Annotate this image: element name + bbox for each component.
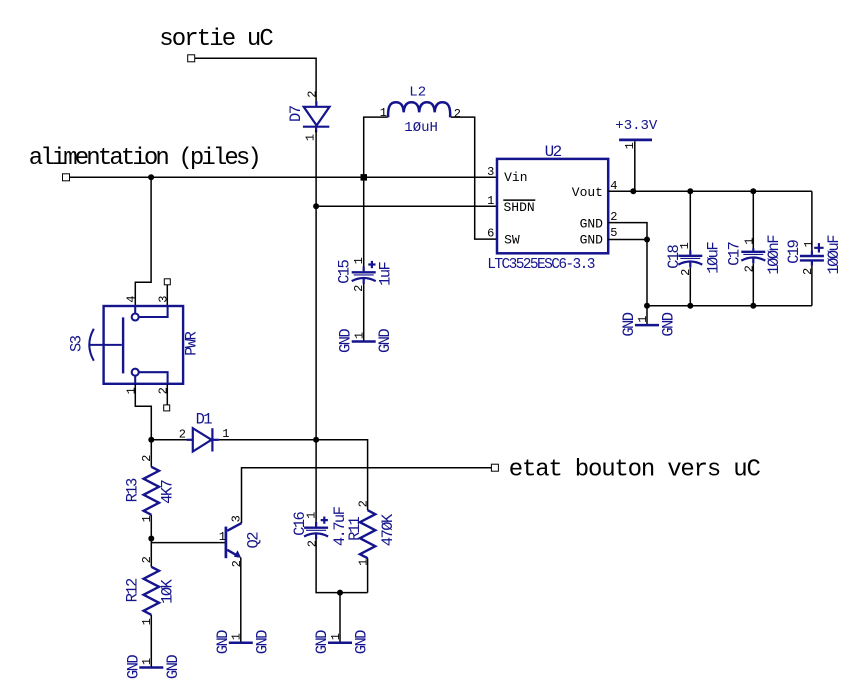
ground symbol under Q2 [214,630,271,654]
svg-text:Q2: Q2 [244,532,262,549]
svg-text:Vin: Vin [504,170,527,185]
svg-text:SHDN: SHDN [504,200,535,215]
svg-text:S3: S3 [67,335,85,352]
svg-text:1: 1 [380,106,387,120]
svg-text:1: 1 [802,240,816,247]
svg-text:C15: C15 [335,259,353,283]
resistor R12 [123,556,176,667]
svg-text:4K7: 4K7 [158,479,176,503]
junction bottom rail left [644,303,650,309]
svg-text:1: 1 [352,257,366,264]
wire D7 cathode down through SHDN node to C16 [315,130,317,522]
svg-text:3: 3 [157,295,171,302]
node sortie uC [159,26,273,62]
svg-text:6: 6 [487,226,494,240]
wire D1 row to R11 top [316,440,368,510]
svg-text:PWR: PWR [182,331,200,355]
capacitor C18 [665,188,723,308]
wire Q2 collector to etat node [242,468,492,523]
svg-text:R11: R11 [346,516,364,540]
wire switch pin1 down to D1 node [135,384,151,440]
inductor L2 [380,84,461,136]
svg-text:U2: U2 [545,143,562,161]
node alimentation (piles) [29,145,259,181]
wire SHDN [316,205,497,207]
svg-text:2: 2 [306,540,320,547]
svg-text:GND: GND [253,630,271,654]
wire L2 left branch [364,117,388,177]
wire Q2 emitter to ground [240,558,242,643]
svg-text:47ØK: 47ØK [379,513,397,546]
junction R13/R12/base node [148,536,154,542]
svg-text:C19: C19 [785,239,803,263]
wire to ground symbol [646,306,648,325]
pushbutton S3 [67,295,200,394]
capacitor C19 [785,191,843,305]
svg-text:2: 2 [454,107,461,121]
node etat bouton vers uC [491,456,760,483]
svg-text:1ØuF: 1ØuF [705,242,723,274]
svg-text:2: 2 [356,500,370,507]
capacitor C16 [291,506,349,547]
diode D7 [287,90,330,141]
wire U2 GND pin5 [608,239,647,241]
svg-text:2: 2 [306,90,320,97]
svg-text:1uF: 1uF [376,261,394,285]
node switch pin 2 stub [166,384,168,405]
svg-text:GND: GND [164,655,182,679]
svg-text:5: 5 [610,226,617,240]
svg-text:GND: GND [376,329,394,353]
svg-text:1: 1 [329,633,343,640]
svg-text:2: 2 [743,265,757,272]
ground symbol under U2 [620,312,678,336]
svg-text:R12: R12 [123,578,141,602]
resistor R13 [123,440,176,567]
svg-text:1: 1 [222,427,229,441]
svg-text:1: 1 [636,315,650,322]
wire sortie uC to D7 [195,58,316,103]
svg-text:1ØK: 1ØK [158,578,176,603]
svg-text:2: 2 [801,268,815,275]
svg-text:GND: GND [353,630,371,654]
svg-text:SW: SW [504,232,520,247]
wire C15 branch top [363,177,365,266]
wire base node to Q2 [151,542,224,544]
svg-text:1: 1 [230,633,244,640]
svg-text:1: 1 [352,332,366,339]
svg-text:2: 2 [179,428,186,442]
svg-text:1ØØnF: 1ØØnF [765,235,783,275]
svg-text:Vout: Vout [572,185,603,200]
svg-text:GND: GND [660,312,678,336]
node switch pin 3 stub [164,279,170,285]
svg-text:1: 1 [487,194,494,208]
svg-text:3: 3 [487,165,494,179]
diode D1 [179,410,230,451]
op IC U2 LTC3525 [487,143,617,273]
ground symbol under C15 [337,329,395,353]
svg-text:sortie uC: sortie uC [159,26,273,53]
ground symbol under R12 [124,655,182,679]
svg-text:L2: L2 [409,84,426,100]
svg-text:D1: D1 [196,410,213,428]
svg-text:2: 2 [157,387,171,394]
svg-text:1: 1 [743,237,757,244]
svg-text:1: 1 [140,515,154,522]
svg-text:R13: R13 [123,478,141,502]
junction at SHDN vertical / D1 row [313,437,319,443]
svg-text:2: 2 [679,269,693,276]
resistor R11 [346,500,397,592]
wire from alimentation junction to switch pin 4 [135,177,151,306]
svg-text:1: 1 [125,387,139,394]
svg-text:1: 1 [305,512,319,519]
svg-text:D7: D7 [287,105,305,122]
svg-text:2: 2 [610,210,617,224]
ground symbol under C16/R11 [313,630,371,654]
svg-text:C17: C17 [726,241,744,265]
wire L2 right to SW pin [451,117,497,239]
transistor Q2 [219,515,262,567]
wire U2 GND pin2 [608,223,647,306]
wire bottom rail [647,305,812,307]
svg-text:4: 4 [125,295,139,302]
svg-text:1: 1 [219,530,226,544]
svg-text:2: 2 [140,455,154,462]
junction C16/R11 ground tap [337,590,343,596]
wire Vout rail [608,190,812,192]
svg-text:etat bouton vers uC: etat bouton vers uC [509,456,761,483]
wire D1 cathode to SHDN vertical [219,439,316,441]
svg-text:1: 1 [356,559,370,566]
wire alimentation to Vin [70,176,498,178]
svg-text:1: 1 [678,242,692,249]
junction GND pins [644,237,650,243]
junction square at L2/C15 tap [361,174,368,181]
power symbol +3.3V [615,118,658,150]
svg-text:alimentation (piles): alimentation (piles) [29,145,259,172]
svg-text:GND: GND [580,216,604,231]
svg-text:+3.3V: +3.3V [615,118,658,134]
wire C15 to ground [363,283,365,341]
svg-text:1ØØuF: 1ØØuF [825,235,843,275]
svg-text:2: 2 [140,556,154,563]
wire to ground [339,593,341,643]
junction on alimentation wire [148,174,154,180]
junction Vout/+3.3V [630,188,636,194]
svg-text:2: 2 [230,560,244,567]
junction D1 anode node [148,437,154,443]
wire +3.3V to Vout rail [634,141,636,191]
svg-text:1: 1 [140,658,154,665]
svg-text:1: 1 [140,618,154,625]
svg-text:GND: GND [580,232,604,247]
svg-text:1ØuH: 1ØuH [404,120,438,136]
capacitor C17 [726,188,784,308]
wire to D1 anode [151,439,187,441]
capacitor C15 [335,257,394,292]
svg-text:LTC3525ESC6-3.3: LTC3525ESC6-3.3 [487,257,594,273]
wire C16 bottom [316,539,368,593]
junction SHDN node [313,203,319,209]
